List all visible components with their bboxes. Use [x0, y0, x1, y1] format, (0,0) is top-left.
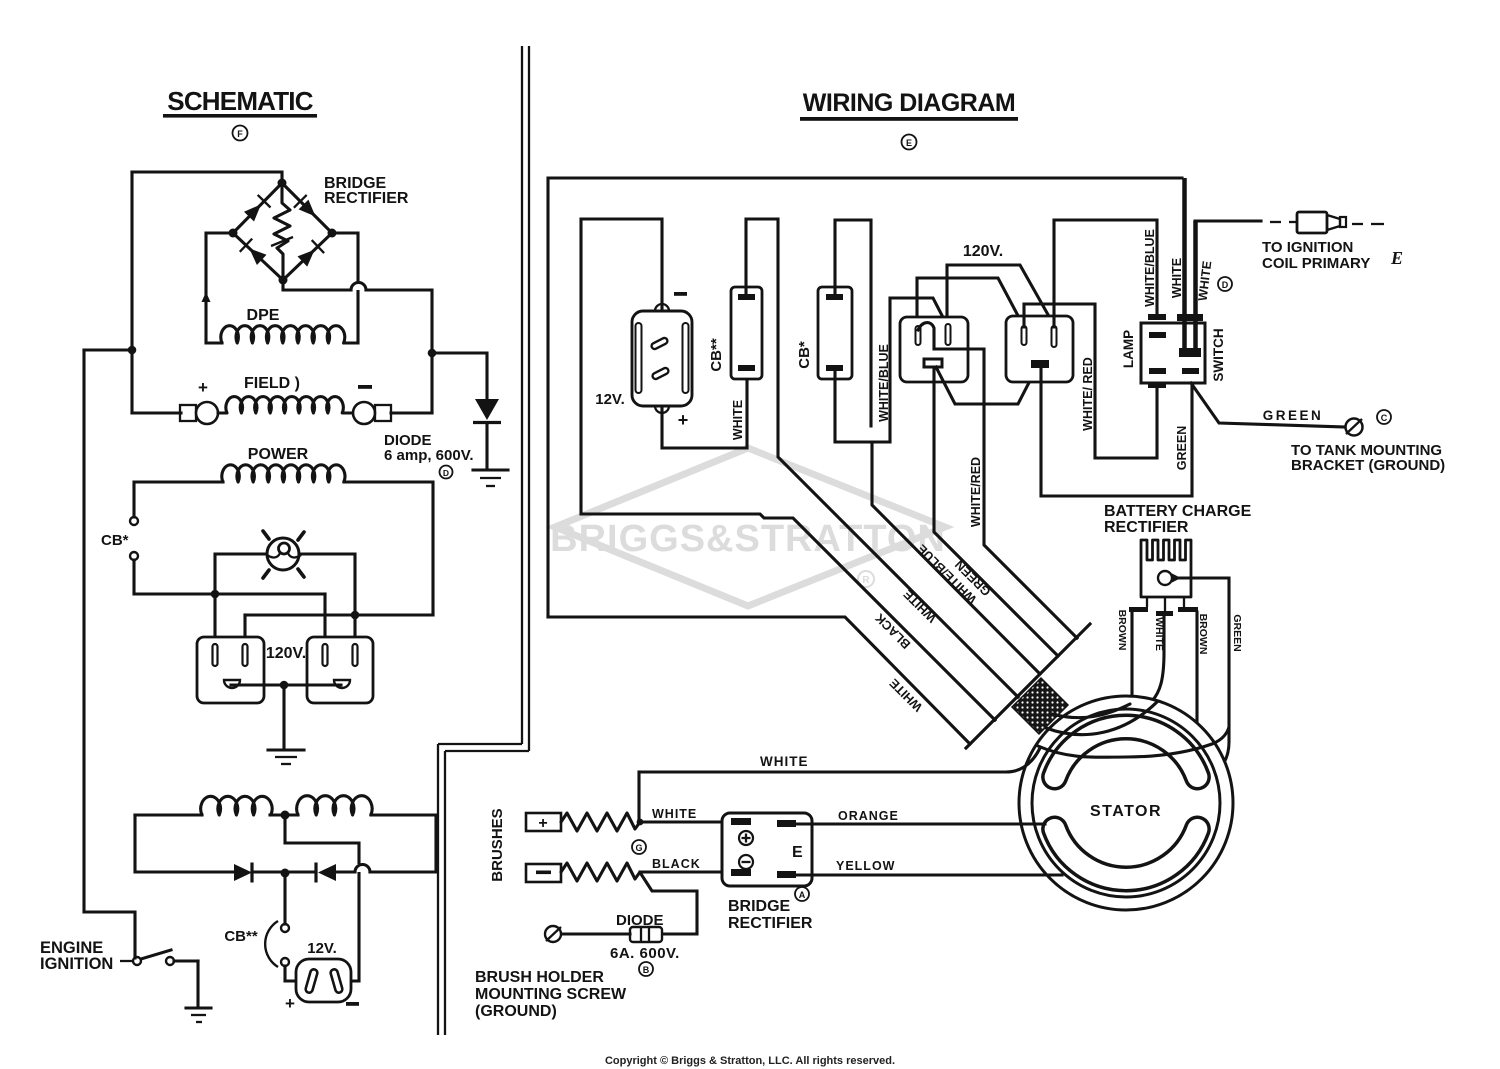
node brush junction	[637, 819, 644, 826]
wire top-left rail	[132, 172, 282, 183]
receptacle 120V right	[307, 637, 373, 703]
wire center tap down to CB**	[283, 873, 286, 924]
svg-text:WHITE: WHITE	[760, 754, 809, 769]
stator winding channel top	[1055, 727, 1198, 777]
wire CB* bottom to receptacle row	[134, 560, 325, 594]
svg-text:BATTERY CHARGE: BATTERY CHARGE	[1104, 503, 1252, 520]
wire down to ground	[282, 685, 285, 749]
wire switch plug to ignition lead	[1193, 221, 1198, 351]
resistor brush plus pigtail	[561, 813, 640, 831]
wire bridge left to DPE	[206, 233, 233, 343]
coil charge winding right	[297, 796, 372, 815]
wire power right down	[344, 482, 433, 615]
wire brown right to stator	[1195, 612, 1198, 753]
wire white-red from left slot down	[918, 323, 1077, 638]
svg-text:120V.: 120V.	[963, 243, 1003, 260]
svg-text:DIODE: DIODE	[616, 912, 664, 929]
svg-text:E: E	[906, 138, 912, 148]
svg-text:COIL PRIMARY: COIL PRIMARY	[1262, 255, 1370, 272]
wire brown left to stator	[1130, 612, 1133, 701]
brush plus terminal	[526, 813, 561, 832]
node bridge bottom	[279, 276, 288, 285]
wire green switch to tank ground	[1191, 383, 1345, 427]
lower loop top wire	[135, 813, 202, 816]
svg-text:STATOR: STATOR	[1090, 803, 1162, 820]
svg-text:6 amp, 600V.: 6 amp, 600V.	[384, 447, 474, 464]
wire brush minus to bridge	[640, 870, 737, 873]
wire white-red frame right receptacle to lamp	[1024, 304, 1157, 458]
node lamp right drop	[351, 611, 360, 620]
wire to ignition coil with dashes	[1195, 221, 1297, 222]
label BATTERY CHARGE RECTIFIER	[1104, 503, 1252, 536]
ignition switch	[120, 950, 198, 965]
svg-text:A: A	[799, 890, 806, 900]
svg-text:+: +	[678, 410, 689, 430]
circuit breaker CB** contacts	[265, 921, 289, 967]
label TO IGNITION COIL PRIMARY	[1262, 239, 1403, 272]
wire main left rail down to ignition	[84, 350, 135, 958]
svg-text:12V.: 12V.	[307, 940, 336, 957]
wire white long horizontal to harness	[639, 748, 1040, 772]
wire CB* bottom jog	[835, 298, 948, 442]
svg-text:BROWN: BROWN	[1116, 610, 1128, 651]
svg-text:BLACK: BLACK	[652, 857, 701, 871]
label 12V minus wiring	[674, 292, 687, 296]
svg-text:WHITE/RED: WHITE/RED	[969, 457, 983, 527]
wire green from rectifier to stator	[1180, 578, 1229, 781]
svg-text:MOUNTING SCREW: MOUNTING SCREW	[475, 986, 627, 1003]
wire switch to ground	[196, 961, 199, 1006]
svg-text:E: E	[1390, 248, 1403, 268]
receptacle 120V left	[197, 637, 264, 703]
wire CB** top loop down to white harness diagonal	[746, 219, 1018, 697]
harness connector hatched block	[1012, 678, 1068, 734]
node field right column	[428, 349, 437, 358]
svg-text:+: +	[285, 994, 295, 1013]
circuit breaker CB* contacts	[130, 517, 138, 560]
wire white bottom and diagonal to harness	[548, 617, 970, 744]
wire sweep to brown lead	[1052, 704, 1130, 718]
svg-text:C: C	[1381, 413, 1388, 423]
harness end cap line	[966, 624, 1090, 748]
title WIRING DIAGRAM	[800, 89, 1018, 121]
brush minus terminal	[526, 864, 561, 882]
svg-text:FIELD ): FIELD )	[244, 375, 300, 392]
wire white down from harness to brush junction	[637, 772, 640, 822]
node bridge right	[328, 229, 337, 238]
wire rail to field plus	[132, 411, 181, 414]
wire yellow to stator	[796, 873, 1062, 876]
wire white center curving into stator	[1152, 616, 1164, 701]
svg-text:SWITCH: SWITCH	[1211, 328, 1226, 381]
svg-text:WHITE: WHITE	[887, 676, 925, 714]
svg-text:RECTIFIER: RECTIFIER	[728, 915, 813, 932]
receptacle 120V wiring left	[900, 317, 968, 382]
wire into left receptacle right slot	[243, 615, 246, 646]
svg-text:SCHEMATIC: SCHEMATIC	[167, 86, 313, 116]
svg-text:(GROUND): (GROUND)	[475, 1003, 557, 1020]
wire loop left side	[135, 815, 234, 872]
svg-text:YELLOW: YELLOW	[836, 859, 895, 873]
label TO TANK MOUNTING BRACKET	[1291, 442, 1445, 474]
wire white-blue diagonal to harness	[872, 442, 1040, 674]
ground below diode	[473, 470, 508, 486]
wire ground link between receptacles	[231, 683, 341, 686]
svg-text:WHITE: WHITE	[901, 587, 939, 625]
svg-text:WIRING DIAGRAM: WIRING DIAGRAM	[803, 89, 1015, 117]
node between coils	[281, 811, 290, 820]
circuit breaker CB* wiring	[818, 287, 852, 379]
bridge diode bottom-right	[298, 240, 325, 267]
node bridge left	[229, 229, 238, 238]
stator rings	[1019, 696, 1233, 910]
wire 120V hot link both right slots	[947, 265, 1055, 327]
svg-text:BRUSH HOLDER: BRUSH HOLDER	[475, 969, 604, 986]
battery rectifier terminal circle	[1158, 571, 1181, 585]
wire receptacle feed row	[245, 613, 433, 616]
wire brush minus to diode	[641, 874, 697, 934]
label BRUSH HOLDER MOUNTING SCREW GROUND	[475, 969, 627, 1020]
diode 6amp 600V	[473, 399, 501, 469]
label ENGINE IGNITION	[40, 939, 113, 973]
wire into right receptacle left slot	[323, 594, 326, 646]
wire power left to CB*	[134, 482, 223, 517]
bridge diode top-left	[244, 195, 271, 222]
svg-text:+: +	[538, 815, 547, 832]
wire CB* top frame	[835, 220, 871, 426]
svg-text:IGNITION: IGNITION	[40, 955, 113, 973]
svg-text:WHITE: WHITE	[1153, 617, 1165, 651]
lamp pilot light	[263, 531, 304, 578]
wire brush plus to bridge	[640, 820, 737, 823]
svg-text:WHITE: WHITE	[652, 807, 697, 821]
svg-text:120V.: 120V.	[266, 645, 306, 662]
svg-text:CB**: CB**	[708, 338, 725, 372]
svg-text:D: D	[443, 468, 449, 478]
label field minus	[358, 385, 372, 389]
svg-text:POWER: POWER	[248, 446, 309, 463]
circled letter d	[440, 466, 453, 479]
svg-text:WHITE/BLUE: WHITE/BLUE	[877, 344, 891, 422]
receptacle 120V wiring right	[1006, 316, 1073, 382]
resistor brush minus pigtail	[561, 863, 640, 881]
arrow up on DPE left wire	[202, 292, 211, 302]
svg-text:E: E	[792, 844, 803, 861]
svg-text:CB**: CB**	[224, 928, 258, 945]
svg-text:12V.: 12V.	[595, 391, 624, 408]
svg-text:WHITE/ RED: WHITE/ RED	[1081, 357, 1095, 431]
watermark Briggs & Stratton logo	[550, 448, 946, 606]
wire white outer box top and left	[548, 178, 1182, 617]
node diode row center	[281, 869, 290, 878]
wire switch plug from top rail	[1182, 178, 1187, 351]
label BRIDGE RECTIFIER	[324, 175, 409, 207]
diode right of pair	[316, 863, 336, 883]
svg-text:RECTIFIER: RECTIFIER	[1104, 519, 1189, 536]
wire bottom slots U link	[936, 367, 1037, 404]
svg-text:G: G	[635, 843, 642, 853]
svg-text:BROWN: BROWN	[1197, 614, 1209, 655]
section divider double line	[438, 46, 529, 1035]
svg-text:F: F	[237, 129, 243, 139]
wire orange to stator	[796, 822, 1045, 825]
screw tank mounting	[1346, 419, 1363, 436]
svg-text:TO IGNITION: TO IGNITION	[1262, 239, 1353, 256]
svg-text:B: B	[643, 965, 650, 975]
svg-text:ORANGE: ORANGE	[838, 809, 899, 823]
circled letter near ignition	[1218, 277, 1232, 291]
svg-text:WHITE: WHITE	[731, 400, 745, 440]
coil POWER	[222, 465, 345, 482]
ground symbol under receptacles	[268, 750, 304, 764]
circled letter C	[1377, 410, 1391, 424]
hop erase under bridge-bottom wire	[352, 282, 365, 290]
svg-text:GREEN: GREEN	[1175, 426, 1189, 470]
coil DPE	[221, 326, 345, 343]
svg-text:LAMP: LAMP	[1121, 330, 1136, 368]
brush terminal field left	[180, 402, 218, 424]
bridge rectifier diamond	[233, 183, 332, 280]
wire sweep to white lead	[1046, 702, 1157, 735]
wire bridge right to DPE	[332, 233, 358, 343]
wire stub to left rail	[84, 348, 132, 351]
stator winding channel bottom	[1055, 829, 1198, 879]
wire to diode	[432, 353, 487, 399]
wire green bottom slot to switch	[1041, 367, 1192, 496]
screw brush holder	[545, 926, 561, 942]
brush terminal field right	[353, 402, 391, 424]
wire 12V plus to CB** bottom	[662, 371, 747, 448]
svg-text:BRIGGS&STRATTON: BRIGGS&STRATTON	[550, 518, 946, 560]
bridge diode top-right	[294, 195, 316, 217]
wire sweep from connector through stator	[1038, 727, 1229, 757]
svg-text:RECTIFIER: RECTIFIER	[324, 190, 409, 207]
node lamp left drop	[211, 590, 220, 599]
svg-text:Copyright © Briggs & Stratton,: Copyright © Briggs & Stratton, LLC. All …	[605, 1055, 895, 1067]
wire into left receptacle left slot	[213, 594, 216, 646]
wire neutral link both left slots	[917, 278, 1024, 328]
wire between coils	[270, 813, 298, 816]
svg-text:R: R	[862, 575, 870, 586]
title SCHEMATIC	[163, 86, 317, 118]
receptacle 12V schematic	[296, 959, 351, 1002]
wire tap to 12V right	[285, 815, 359, 981]
bridge rectifier wiring module	[722, 813, 812, 886]
circled letter A	[795, 887, 809, 901]
label DIODE 6 amp 600V	[384, 432, 474, 464]
svg-text:WHITE/BLUE: WHITE/BLUE	[1143, 229, 1157, 307]
node ground link	[280, 681, 289, 690]
circuit breaker CB** wiring	[731, 287, 762, 379]
coil FIELD	[218, 397, 353, 413]
hop erase on diode row	[356, 864, 369, 872]
wire black loop: 12V minus up over and down to harness	[581, 219, 995, 720]
svg-text:BRUSHES: BRUSHES	[489, 808, 506, 881]
diode left of pair	[234, 863, 252, 883]
battery charge rectifier body with fins	[1141, 540, 1191, 597]
svg-text:CB*: CB*	[101, 532, 129, 549]
svg-text:WHITE: WHITE	[1196, 260, 1215, 302]
lamp-switch module	[1141, 314, 1205, 388]
circled letter F under schematic title	[233, 126, 248, 141]
svg-text:DPE: DPE	[247, 307, 280, 324]
wire loop right side	[371, 815, 436, 872]
svg-text:+: +	[198, 378, 208, 397]
circled letter E under wiring title	[902, 135, 917, 150]
node junction left rail	[128, 346, 137, 355]
wire diode row	[252, 870, 316, 873]
svg-text:BRIDGE: BRIDGE	[728, 898, 791, 915]
circled letter G	[632, 840, 646, 854]
svg-text:WHITE: WHITE	[1170, 258, 1184, 298]
svg-text:BRACKET (GROUND): BRACKET (GROUND)	[1291, 457, 1445, 474]
coil charge winding left	[201, 796, 272, 815]
wire CB** to 12V left	[285, 966, 296, 981]
bridge diode bottom-left	[240, 239, 267, 265]
wire diode to mounting screw	[561, 932, 630, 935]
wire white-blue right slot up to lamp top	[1054, 220, 1157, 327]
ground symbol ignition	[186, 1008, 211, 1022]
receptacle 12V wiring	[632, 304, 692, 413]
svg-text:GREEN: GREEN	[1263, 408, 1324, 423]
wire lamp left	[215, 554, 266, 594]
wire green from bottom slot down	[934, 367, 1058, 656]
node bridge top	[278, 179, 287, 188]
label BRIDGE RECTIFIER wiring	[728, 898, 813, 932]
wire into right receptacle right slot	[353, 615, 356, 646]
wire diode row right with hop	[336, 865, 436, 873]
svg-text:CB*: CB*	[796, 341, 813, 369]
wire lamp right	[300, 554, 355, 615]
svg-text:6A. 600V.: 6A. 600V.	[610, 945, 680, 962]
connector ignition coil	[1297, 212, 1384, 233]
svg-text:D: D	[1222, 280, 1229, 290]
wire left vertical to field row	[130, 172, 133, 413]
diode 6A 600V body	[630, 927, 662, 942]
svg-text:GREEN: GREEN	[1231, 614, 1243, 651]
wire bridge bottom with hop to field minus column	[283, 280, 432, 413]
wire field minus to column	[391, 411, 432, 414]
label 12V minus	[346, 1002, 359, 1006]
rectifier prongs and feet	[1129, 597, 1198, 616]
circled letter B	[639, 962, 653, 976]
